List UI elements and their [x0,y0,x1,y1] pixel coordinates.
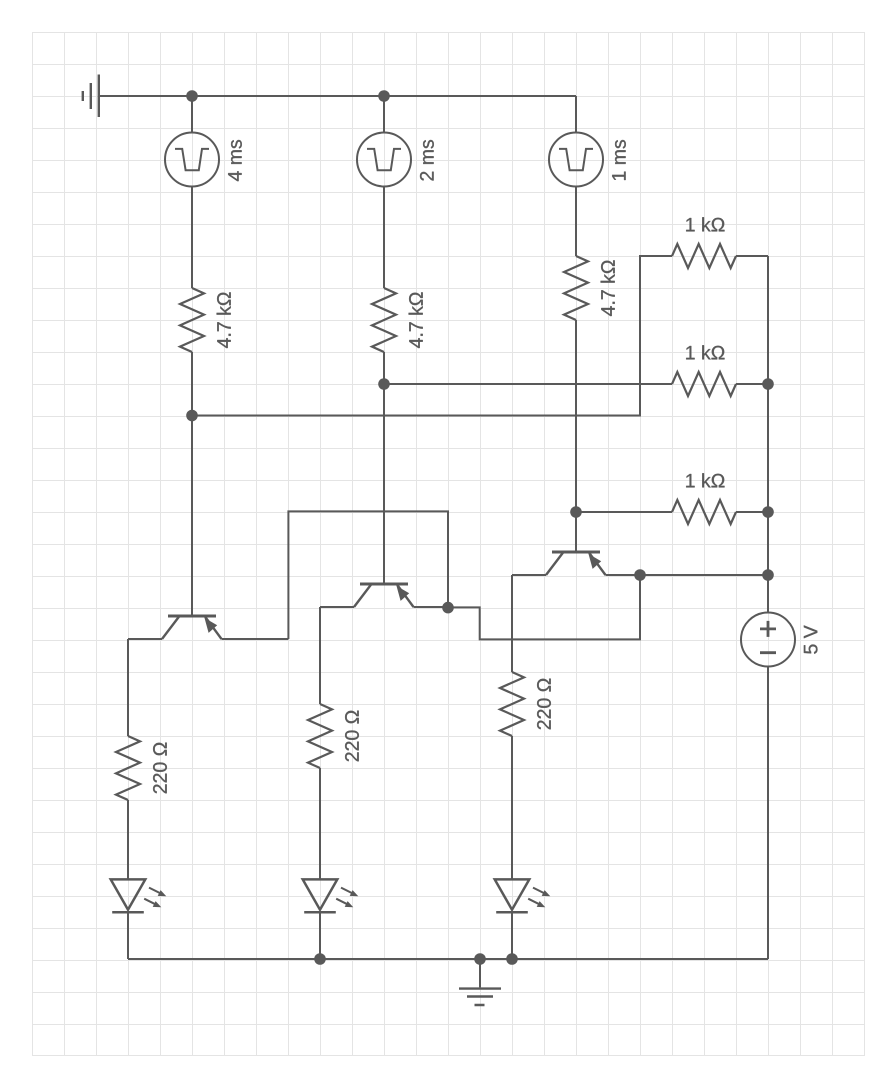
label R7 220 Ohm [153,743,167,794]
wire Q1 collector to LED column [128,638,162,640]
transistor Q2 [354,584,414,607]
label V2 2 ms [420,140,434,181]
label R1 4.7 kOhm [217,292,231,348]
wire LED2 to bottom rail [319,911,321,959]
wire +5V rail upper [767,256,769,613]
label R3 4.7 kOhm [601,260,615,316]
resistor R7 220 [116,736,140,800]
wire node C to R6 [576,511,672,513]
wire node B to R5 [384,383,672,385]
ground G2 [459,989,501,1005]
wire LED2 column upper [319,607,321,704]
resistor R8 220 [308,704,332,768]
node dot bottom ground [474,953,486,965]
resistor R5 1k [672,372,736,396]
node dot bottom LED3 [506,953,518,965]
node dot emitter tie [634,569,646,581]
wire R4 to rail [736,255,768,257]
LED D3 [495,879,551,912]
wire LED1 to bottom rail [127,911,129,959]
wire node D to emitter rail [448,575,640,639]
wire V2 bottom lead [383,187,385,289]
wire Q2 collector to LED column [320,606,354,608]
label R9 220 Ohm [537,679,551,730]
wire LED3 column upper [511,575,513,672]
label R5 1 kOhm [686,345,724,359]
resistor R9 220 [500,672,524,736]
resistor R6 1k [672,500,736,524]
label R4 1 kOhm [686,217,724,231]
resistor R3 4.7k [564,256,588,320]
node dot C [570,506,582,518]
wire R8 to LED2 [319,768,321,879]
ground G1 (top-left, rotated left-facing) [83,75,99,118]
label V4 5 V [804,625,818,653]
wire +5V rail lower [767,667,769,960]
wire bottom rail [128,958,768,960]
resistor R2 4.7k [372,288,396,352]
voltage source V4 5V [741,613,795,667]
node dot rail emitter [762,569,774,581]
label R2 4.7 kOhm [409,292,423,348]
transistor Q3 [546,552,606,575]
wire top rail from G1 to V3 column [99,95,576,97]
node dot bottom LED2 [314,953,326,965]
label V3 1 ms [612,140,626,180]
label R8 220 Ohm [345,711,359,762]
LED D1 [111,879,167,912]
pulse source V2 (2 ms) [357,133,411,187]
label V1 4 ms [228,140,242,181]
node dot B [378,378,390,390]
wire R7 to LED1 [127,800,129,879]
wire Q3 base column [575,320,577,552]
wire V3 bottom lead [575,187,577,257]
wire V3 top lead [575,96,577,133]
wire Q1 base column [191,352,193,616]
wire Q3 collector to LED column [512,574,546,576]
resistor R1 4.7k [180,288,204,352]
node dot rail R6 [762,506,774,518]
label R6 1 kOhm [686,473,724,487]
LED D2 [303,879,359,912]
wire V1 top lead [191,96,193,133]
wire V2 top lead [383,96,385,133]
wire LED3 to bottom rail [511,911,513,959]
wire Q3 emitter to rail [606,574,769,576]
pulse source V3 (1 ms) [549,133,603,187]
ground G2 stub [479,959,481,987]
wire R9 to LED3 [511,736,513,879]
pulse source V1 (4 ms) [165,133,219,187]
node dot top V1 [186,90,198,102]
wire Q2 emitter to node D [414,606,449,608]
wire R6 to rail [736,511,768,513]
wire LED1 column upper [127,639,129,736]
node dot D [442,602,454,614]
wire R5 to rail [736,383,768,385]
wire V1 bottom lead [191,187,193,289]
resistor R4 1k [672,244,736,268]
node dot rail R4 [762,378,774,390]
transistor Q1 [162,616,222,639]
node dot top V2 [378,90,390,102]
wire Q1 emitter bridge to node D [288,511,448,639]
wire Q2 base column [383,352,385,584]
node dot A [186,410,198,422]
wire node A to R4 [192,256,672,416]
wire Q1 emitter run [222,638,289,640]
